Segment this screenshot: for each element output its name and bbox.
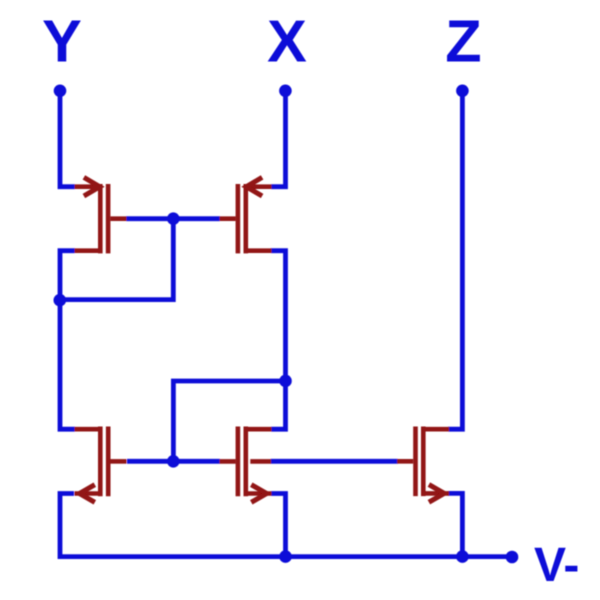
wire node B left and down to bottom gate line xyxy=(173,381,285,461)
wire X pin down to Q2 drain xyxy=(271,92,286,187)
transistor Q3 xyxy=(75,427,127,503)
terminal pin Y xyxy=(54,85,67,98)
terminal pin Z xyxy=(456,85,469,98)
wire Q3 gate to Q4 gate xyxy=(127,459,220,464)
terminal pin V- xyxy=(506,551,519,564)
node junction Q3/Q4 gates xyxy=(167,455,180,468)
rail junction under Q4 xyxy=(279,550,292,563)
transistor Q5 xyxy=(397,427,449,503)
svg-text:V-: V- xyxy=(534,539,579,592)
wire node A down and left to Q1 source node xyxy=(60,219,173,300)
node junction Q1 source xyxy=(54,294,67,307)
terminal pin X xyxy=(279,85,292,98)
wire Q5 source down to rail xyxy=(448,493,462,556)
wire Q2 source down to Q4 drain xyxy=(271,251,286,430)
wire Q1 source down left rail to Q3 drain xyxy=(60,251,75,430)
wire Q1 gate to Q2 gate xyxy=(126,216,220,221)
wire Z pin down to Q5 drain xyxy=(448,92,462,429)
svg-text:X: X xyxy=(267,8,307,75)
wire Q3 source down to V- rail and rail to V- pin xyxy=(60,494,511,557)
node A junction (Q1/Q2 gates) xyxy=(167,212,180,225)
rail junction under Q5 xyxy=(456,550,469,563)
wire Y pin down to Q1 drain xyxy=(60,92,75,187)
transistor Q1 xyxy=(75,177,127,253)
transistor Q4 xyxy=(220,427,272,503)
wire Q4 body to Q5 gate xyxy=(271,459,399,464)
node B junction (Q2 source / Q4 drain) xyxy=(279,375,292,388)
wire Q4 source down to rail xyxy=(271,494,286,557)
svg-text:Z: Z xyxy=(445,8,481,75)
transistor Q2 xyxy=(220,177,272,253)
svg-text:Y: Y xyxy=(42,8,82,75)
